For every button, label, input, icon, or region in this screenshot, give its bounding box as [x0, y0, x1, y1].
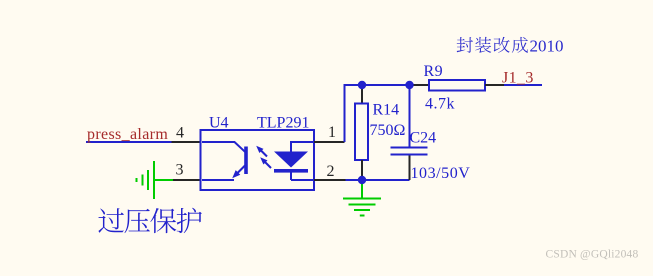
wire net press_alarm (left horizontal): [86, 141, 172, 143]
svg-text:CSDN @GQli2048: CSDN @GQli2048: [546, 249, 639, 261]
junction dot at R14 top: [358, 81, 366, 89]
svg-text:R14: R14: [373, 102, 400, 119]
resistor R14: [361, 85, 363, 104]
svg-text:press_alarm: press_alarm: [87, 126, 168, 143]
svg-text:4: 4: [176, 125, 184, 142]
U4 LED (anode wire, triangle, cathode bar): [291, 141, 314, 180]
svg-text:1: 1: [328, 124, 336, 141]
svg-text:4.7k: 4.7k: [425, 96, 455, 113]
pin 1 stub of U4: [314, 141, 345, 143]
svg-text:TLP291: TLP291: [257, 115, 309, 132]
ground symbol (left, rotated 90): [137, 161, 174, 199]
resistor R9: [410, 84, 430, 86]
pin 2 stub of U4: [314, 179, 346, 181]
ground symbol (bottom): [343, 184, 381, 216]
pin 3 stub of U4: [173, 179, 201, 181]
U4 light arrows: [259, 149, 271, 169]
capacitor C24: [409, 85, 411, 147]
optocoupler U4 body box: [201, 130, 315, 190]
svg-text:2: 2: [327, 163, 335, 180]
svg-text:J1_3: J1_3: [502, 70, 534, 87]
junction dot at C24/R9 node: [405, 81, 413, 89]
annotation note: footprint change to 2010: [457, 37, 473, 53]
U4 phototransistor (collector, base bar, emitter with arrow): [202, 142, 245, 180]
svg-text:103/50V: 103/50V: [411, 165, 471, 182]
wire pin1 riser to top rail: [345, 85, 410, 142]
pin 4 stub of U4: [172, 141, 201, 143]
svg-text:750Ω: 750Ω: [370, 122, 406, 139]
svg-text:C24: C24: [410, 130, 437, 147]
svg-text:2010: 2010: [530, 37, 564, 56]
wire pin2 to ground node: [346, 179, 410, 181]
junction dot at ground node: [358, 176, 366, 184]
svg-text:U4: U4: [209, 115, 229, 132]
title text: overvoltage protection: [98, 208, 124, 233]
svg-text:R9: R9: [424, 63, 443, 80]
wire net J1_3: [504, 84, 542, 86]
svg-text:3: 3: [176, 162, 184, 179]
